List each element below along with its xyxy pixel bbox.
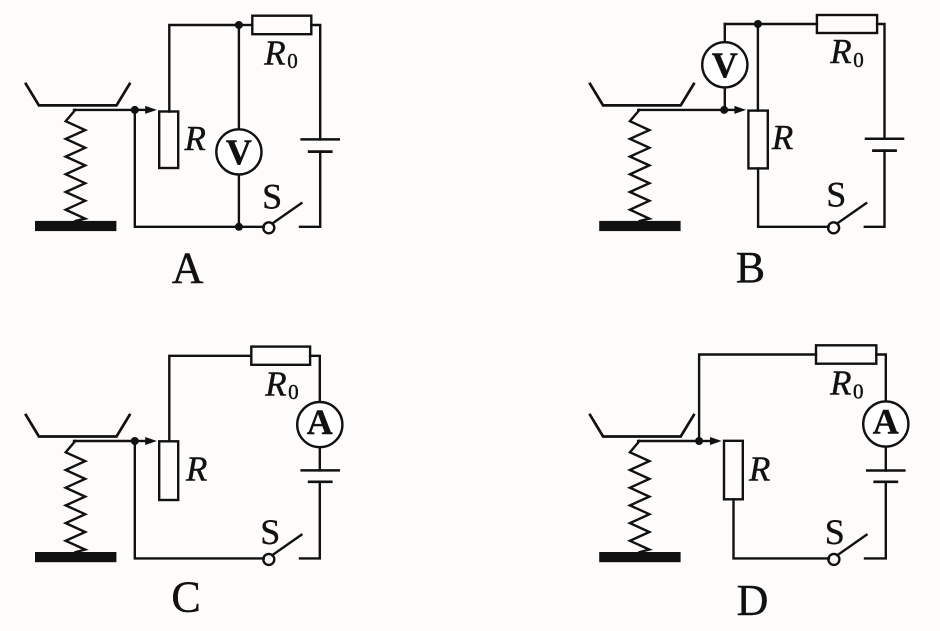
svg-text:S: S: [825, 512, 845, 552]
svg-text:R: R: [184, 119, 206, 158]
svg-text:C: C: [171, 573, 200, 622]
svg-text:B: B: [736, 243, 765, 292]
svg-text:R: R: [263, 33, 285, 72]
svg-text:R: R: [264, 364, 286, 403]
svg-text:R: R: [829, 364, 851, 403]
svg-text:0: 0: [853, 48, 864, 72]
svg-text:0: 0: [288, 380, 299, 404]
svg-text:R: R: [185, 450, 207, 489]
svg-text:V: V: [226, 132, 252, 172]
svg-text:A: A: [873, 402, 899, 442]
svg-text:R: R: [748, 449, 770, 488]
svg-text:S: S: [260, 512, 280, 552]
svg-text:D: D: [737, 576, 769, 625]
svg-text:A: A: [172, 244, 204, 293]
svg-text:R: R: [771, 118, 793, 157]
svg-text:R: R: [829, 32, 851, 71]
svg-text:S: S: [826, 175, 846, 215]
svg-text:0: 0: [853, 379, 864, 403]
svg-text:0: 0: [287, 49, 298, 73]
svg-text:V: V: [712, 45, 738, 85]
svg-text:S: S: [262, 177, 282, 217]
svg-text:A: A: [307, 402, 333, 442]
